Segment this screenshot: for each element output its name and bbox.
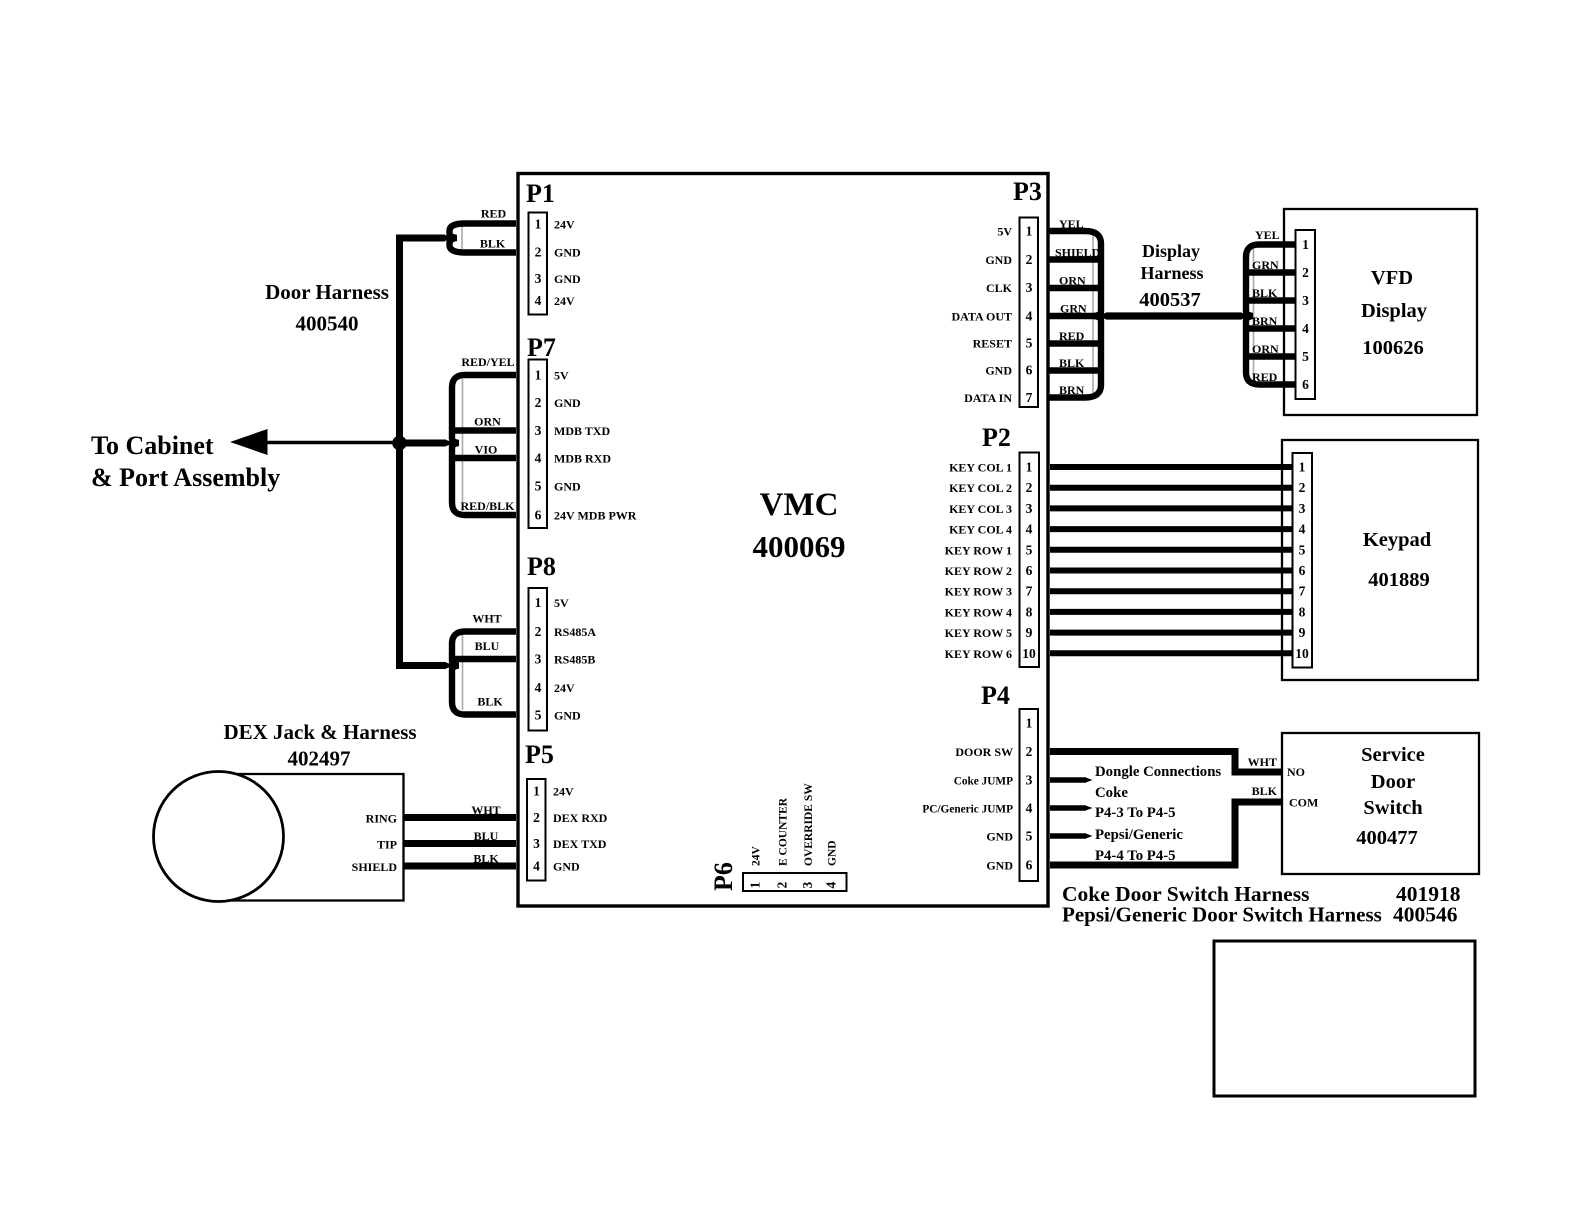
- svg-text:P4-3 To P4-5: P4-3 To P4-5: [1095, 805, 1176, 821]
- svg-text:GND: GND: [554, 396, 581, 410]
- svg-text:1: 1: [1299, 460, 1306, 475]
- svg-text:5V: 5V: [997, 225, 1012, 239]
- Service Door Switch box: [1282, 733, 1479, 874]
- svg-text:PC/Generic JUMP: PC/Generic JUMP: [922, 804, 1013, 816]
- svg-text:4: 4: [1026, 801, 1033, 816]
- svg-text:5: 5: [535, 708, 542, 723]
- connector P8 body: [529, 588, 548, 731]
- svg-text:5: 5: [1026, 336, 1033, 351]
- connector P7 body: [529, 360, 548, 529]
- stub wire P4-5: [1050, 833, 1086, 839]
- svg-text:GRN: GRN: [1060, 302, 1087, 316]
- svg-text:Dongle Connections: Dongle Connections: [1095, 764, 1221, 780]
- wire tip into P7 plug: [445, 440, 456, 447]
- connector P5 pin numbers: [533, 784, 540, 874]
- svg-text:DOOR SW: DOOR SW: [955, 745, 1013, 759]
- P3 plug wire 4 GRN / trunk exit: [1049, 313, 1101, 319]
- keypad wires 1-10: [1050, 467, 1292, 653]
- svg-text:KEY ROW 2: KEY ROW 2: [945, 564, 1012, 578]
- svg-text:& Port Assembly: & Port Assembly: [91, 463, 280, 492]
- svg-text:400477: 400477: [1356, 827, 1418, 849]
- svg-text:OVERRIDE SW: OVERRIDE SW: [803, 783, 815, 866]
- connector P1 body: [529, 213, 548, 315]
- svg-text:10: 10: [1022, 646, 1036, 661]
- svg-text:3: 3: [1026, 501, 1033, 516]
- svg-text:GND: GND: [986, 830, 1013, 844]
- svg-text:24V: 24V: [751, 846, 763, 867]
- svg-text:BRN: BRN: [1059, 383, 1085, 397]
- svg-text:BLU: BLU: [474, 829, 499, 843]
- svg-text:24V: 24V: [554, 294, 575, 308]
- svg-text:RS485B: RS485B: [554, 653, 595, 667]
- svg-text:3: 3: [1026, 773, 1033, 788]
- connector P8 pin numbers: [535, 595, 542, 723]
- wire display harness trunk: [1106, 312, 1242, 319]
- connector P4 pin labels: [922, 745, 1013, 873]
- svg-text:P4: P4: [981, 681, 1010, 710]
- svg-text:TIP: TIP: [377, 838, 397, 852]
- Keypad connector pin numbers: [1295, 460, 1309, 662]
- svg-text:5: 5: [1302, 349, 1309, 364]
- svg-text:YEL: YEL: [1059, 217, 1084, 231]
- svg-text:Harness: Harness: [1141, 263, 1204, 283]
- connector P3 body: [1020, 218, 1039, 408]
- svg-text:400546: 400546: [1393, 903, 1458, 927]
- svg-text:P4-4 To P4-5: P4-4 To P4-5: [1095, 848, 1176, 864]
- svg-text:Display: Display: [1361, 300, 1428, 322]
- svg-text:YEL: YEL: [1255, 228, 1280, 242]
- svg-text:GND: GND: [554, 246, 581, 260]
- svg-text:GND: GND: [554, 709, 581, 723]
- svg-text:1: 1: [535, 368, 542, 383]
- P8 plug shell: [452, 632, 516, 715]
- svg-text:400540: 400540: [296, 312, 359, 336]
- svg-text:E COUNTER: E COUNTER: [778, 797, 790, 866]
- svg-text:2: 2: [533, 810, 540, 825]
- VFD plug divider line: [1253, 249, 1255, 381]
- svg-text:DEX RXD: DEX RXD: [553, 811, 608, 825]
- svg-text:KEY ROW 5: KEY ROW 5: [945, 626, 1012, 640]
- VFD connector body: [1296, 230, 1316, 399]
- svg-text:KEY COL 4: KEY COL 4: [949, 523, 1012, 537]
- svg-text:KEY ROW 1: KEY ROW 1: [945, 544, 1012, 558]
- P7 plug wire ORN: [452, 427, 516, 433]
- svg-text:5V: 5V: [554, 596, 569, 610]
- svg-text:RED: RED: [1059, 329, 1085, 343]
- svg-text:BRN: BRN: [1252, 314, 1278, 328]
- svg-text:P6: P6: [709, 862, 738, 891]
- VFD plug shell: [1246, 245, 1295, 385]
- svg-text:GND: GND: [986, 859, 1013, 873]
- svg-text:4: 4: [533, 859, 540, 874]
- svg-text:GND: GND: [985, 253, 1012, 267]
- connector P2 pin numbers: [1022, 460, 1036, 662]
- connector P5 pin labels: [553, 785, 608, 874]
- svg-text:RED: RED: [1252, 370, 1278, 384]
- svg-text:GND: GND: [827, 840, 839, 866]
- svg-text:4: 4: [1299, 522, 1306, 537]
- svg-text:2: 2: [775, 882, 790, 889]
- svg-text:5: 5: [1026, 543, 1033, 558]
- svg-text:2: 2: [535, 395, 542, 410]
- wire tip into VFD plug: [1241, 313, 1251, 320]
- svg-text:1: 1: [535, 595, 542, 610]
- svg-text:DATA OUT: DATA OUT: [951, 310, 1012, 324]
- svg-text:BLK: BLK: [1252, 286, 1278, 300]
- svg-text:5V: 5V: [554, 369, 569, 383]
- svg-text:RED/BLK: RED/BLK: [460, 499, 515, 513]
- svg-text:P7: P7: [527, 333, 556, 362]
- wire tip into P3 plug: [1097, 313, 1107, 320]
- stub wire P4-4: [1050, 805, 1086, 811]
- arrowhead to cabinet: [230, 429, 268, 455]
- wire thin line to cabinet arrow: [261, 441, 400, 444]
- svg-text:VFD: VFD: [1371, 267, 1413, 289]
- svg-text:2: 2: [535, 624, 542, 639]
- svg-text:3: 3: [533, 836, 540, 851]
- svg-text:P3: P3: [1013, 177, 1042, 206]
- connector P6 pin labels (rotated): [751, 783, 839, 866]
- svg-text:CLK: CLK: [986, 281, 1013, 295]
- svg-text:Pepsi/Generic: Pepsi/Generic: [1095, 827, 1183, 843]
- empty note box: [1214, 941, 1475, 1096]
- svg-text:BLU: BLU: [475, 639, 500, 653]
- svg-text:4: 4: [535, 680, 542, 695]
- svg-text:Keypad: Keypad: [1363, 529, 1432, 551]
- svg-text:8: 8: [1026, 605, 1033, 620]
- svg-text:7: 7: [1299, 584, 1306, 599]
- svg-text:24V: 24V: [554, 681, 575, 695]
- svg-text:KEY ROW 4: KEY ROW 4: [945, 606, 1012, 620]
- svg-text:WHT: WHT: [1248, 755, 1277, 769]
- svg-text:4: 4: [1302, 321, 1309, 336]
- svg-text:402497: 402497: [288, 747, 351, 771]
- svg-text:4: 4: [1026, 309, 1033, 324]
- svg-text:5: 5: [1299, 543, 1306, 558]
- svg-text:P8: P8: [527, 552, 556, 581]
- svg-text:P1: P1: [526, 179, 555, 208]
- svg-text:NO: NO: [1287, 765, 1305, 779]
- svg-text:10: 10: [1295, 646, 1309, 661]
- svg-text:RED/YEL: RED/YEL: [461, 355, 514, 369]
- wire DEX WHT: [404, 814, 517, 821]
- Keypad connector body: [1293, 453, 1313, 668]
- svg-text:1: 1: [1026, 460, 1033, 475]
- connector P2 pin labels: [945, 461, 1012, 662]
- svg-text:SHIELD: SHIELD: [1055, 246, 1101, 260]
- connector P5 body: [527, 779, 546, 881]
- svg-text:P2: P2: [982, 423, 1011, 452]
- P3 plug wire 5 RED: [1049, 340, 1101, 346]
- stub wire P4-3: [1050, 777, 1086, 783]
- svg-text:RESET: RESET: [973, 337, 1012, 351]
- svg-text:WHT: WHT: [471, 803, 500, 817]
- svg-text:1: 1: [1026, 716, 1033, 731]
- connector P7 pin labels: [554, 369, 637, 523]
- connector P7 pin numbers: [535, 368, 542, 523]
- svg-text:ORN: ORN: [474, 415, 501, 429]
- svg-text:Coke: Coke: [1095, 785, 1128, 801]
- P8 plug divider line: [462, 635, 464, 710]
- svg-text:3: 3: [535, 271, 542, 286]
- connector P3 pin numbers: [1026, 224, 1033, 406]
- wire DOOR SW to NO: [1050, 752, 1282, 773]
- svg-text:ORN: ORN: [1059, 274, 1086, 288]
- svg-text:6: 6: [535, 508, 542, 523]
- svg-text:KEY COL 2: KEY COL 2: [949, 481, 1012, 495]
- svg-text:1: 1: [535, 217, 542, 232]
- VFD plug wire GRN: [1246, 269, 1295, 275]
- P3 plug wire 6 BLK: [1049, 367, 1101, 373]
- svg-text:1: 1: [533, 784, 540, 799]
- wire DEX BLU: [404, 840, 517, 847]
- svg-text:2: 2: [535, 245, 542, 260]
- svg-text:2: 2: [1026, 744, 1033, 759]
- svg-text:7: 7: [1026, 584, 1033, 599]
- svg-text:GND: GND: [554, 272, 581, 286]
- svg-text:8: 8: [1299, 605, 1306, 620]
- svg-text:Switch: Switch: [1363, 797, 1423, 819]
- svg-text:1: 1: [1302, 237, 1309, 252]
- P1 plug shell: [450, 224, 517, 253]
- svg-text:BLK: BLK: [1059, 356, 1085, 370]
- P1 plug divider line: [461, 227, 463, 249]
- VFD Display box: [1284, 209, 1477, 415]
- svg-text:401889: 401889: [1368, 569, 1430, 591]
- connector P1 pin numbers: [535, 217, 542, 309]
- svg-text:GND: GND: [553, 860, 580, 874]
- svg-text:KEY COL 3: KEY COL 3: [949, 502, 1012, 516]
- svg-text:3: 3: [1026, 280, 1033, 295]
- svg-text:6: 6: [1302, 377, 1309, 392]
- svg-text:RS485A: RS485A: [554, 625, 596, 639]
- svg-text:9: 9: [1299, 625, 1306, 640]
- svg-text:Service: Service: [1361, 744, 1425, 766]
- svg-text:MDB RXD: MDB RXD: [554, 452, 611, 466]
- P7 plug shell: [452, 375, 516, 515]
- svg-text:SHIELD: SHIELD: [352, 860, 398, 874]
- svg-text:2: 2: [1026, 480, 1033, 495]
- svg-text:5: 5: [535, 479, 542, 494]
- P3 harness plug shell: [1049, 231, 1101, 398]
- svg-text:Pepsi/Generic Door Switch Harn: Pepsi/Generic Door Switch Harness: [1062, 903, 1382, 927]
- connector P8 pin labels: [554, 596, 596, 723]
- svg-text:3: 3: [535, 652, 542, 667]
- svg-text:Display: Display: [1142, 241, 1200, 261]
- svg-text:DEX Jack & Harness: DEX Jack & Harness: [223, 720, 416, 744]
- svg-text:COM: COM: [1289, 796, 1318, 810]
- VFD connector pin numbers: [1302, 237, 1309, 392]
- svg-text:Door: Door: [1371, 771, 1415, 793]
- wire DEX BLK: [404, 863, 517, 870]
- node junction dot: [392, 436, 407, 451]
- svg-text:1: 1: [748, 882, 763, 889]
- svg-text:DEX TXD: DEX TXD: [553, 837, 607, 851]
- svg-text:BLK: BLK: [1252, 784, 1278, 798]
- svg-text:3: 3: [800, 882, 815, 889]
- wire tip into P8 plug: [445, 662, 456, 669]
- Keypad box: [1282, 440, 1478, 680]
- svg-text:BLK: BLK: [477, 695, 503, 709]
- VFD plug wire BLK: [1246, 297, 1295, 303]
- connector P2 body: [1020, 453, 1040, 668]
- svg-text:1: 1: [1026, 224, 1033, 239]
- svg-text:MDB TXD: MDB TXD: [554, 424, 610, 438]
- P3 plug wire 2 SHIELD: [1049, 256, 1101, 262]
- svg-text:VMC: VMC: [760, 487, 839, 523]
- wire labels VFD side: [1252, 228, 1280, 384]
- svg-text:3: 3: [535, 423, 542, 438]
- DEX Jack body box: [217, 774, 404, 901]
- svg-text:DATA IN: DATA IN: [964, 391, 1012, 405]
- svg-text:BLK: BLK: [480, 237, 506, 251]
- svg-text:24V MDB PWR: 24V MDB PWR: [554, 509, 637, 523]
- svg-text:GND: GND: [985, 364, 1012, 378]
- P7 plug divider line: [462, 379, 464, 511]
- svg-text:KEY ROW 6: KEY ROW 6: [945, 647, 1012, 661]
- wire stub junction to P7: [400, 440, 447, 447]
- wire labels P3 side: [1055, 217, 1101, 397]
- svg-text:9: 9: [1026, 625, 1033, 640]
- svg-text:400069: 400069: [753, 529, 846, 564]
- DEX Jack circle: [154, 772, 284, 902]
- svg-text:4: 4: [1026, 522, 1033, 537]
- svg-text:5: 5: [1026, 829, 1033, 844]
- svg-text:2: 2: [1026, 252, 1033, 267]
- connector P3 pin labels: [951, 225, 1012, 406]
- connector P6 body: [743, 873, 847, 891]
- svg-text:KEY ROW 3: KEY ROW 3: [945, 585, 1012, 599]
- svg-text:4: 4: [824, 882, 839, 889]
- svg-text:7: 7: [1026, 390, 1033, 405]
- svg-text:100626: 100626: [1362, 337, 1424, 359]
- VMC main box U1: [518, 174, 1048, 907]
- svg-text:RING: RING: [366, 812, 397, 826]
- svg-text:4: 4: [535, 451, 542, 466]
- wire GND to COM: [1050, 802, 1282, 865]
- svg-text:3: 3: [1302, 293, 1309, 308]
- svg-text:Coke JUMP: Coke JUMP: [954, 776, 1013, 788]
- svg-text:WHT: WHT: [472, 612, 501, 626]
- connector P1 pin labels: [554, 218, 581, 309]
- VFD plug wire ORN: [1246, 353, 1295, 359]
- svg-text:2: 2: [1302, 265, 1309, 280]
- svg-text:3: 3: [1299, 501, 1306, 516]
- svg-text:Door Harness: Door Harness: [265, 280, 389, 304]
- VFD plug wire BRN: [1246, 325, 1295, 331]
- svg-text:400537: 400537: [1139, 289, 1201, 311]
- P3 plug divider line: [1092, 235, 1094, 394]
- svg-text:24V: 24V: [553, 785, 574, 799]
- svg-text:ORN: ORN: [1252, 342, 1279, 356]
- svg-text:6: 6: [1026, 563, 1033, 578]
- wire trunk (door harness): [400, 238, 447, 666]
- svg-text:KEY COL 1: KEY COL 1: [949, 461, 1012, 475]
- svg-text:GRN: GRN: [1252, 258, 1279, 272]
- svg-text:6: 6: [1026, 858, 1033, 873]
- svg-text:24V: 24V: [554, 218, 575, 232]
- svg-text:BLK: BLK: [473, 852, 499, 866]
- svg-text:RED: RED: [481, 207, 507, 221]
- connector P4 pin numbers: [1026, 716, 1033, 873]
- svg-text:P5: P5: [525, 740, 554, 769]
- svg-text:6: 6: [1299, 563, 1306, 578]
- svg-text:GND: GND: [554, 480, 581, 494]
- P3 plug wire 3 ORN: [1049, 285, 1101, 291]
- svg-text:VIO: VIO: [475, 443, 498, 457]
- connector P4 body: [1020, 709, 1039, 881]
- P7 plug wire VIO: [452, 455, 516, 461]
- svg-text:2: 2: [1299, 480, 1306, 495]
- P8 plug wire BLU: [452, 656, 516, 662]
- connector P6 pin numbers (rotated): [748, 882, 839, 889]
- wire tip into P1 plug: [444, 235, 454, 242]
- svg-text:To Cabinet: To Cabinet: [91, 431, 214, 460]
- svg-text:4: 4: [535, 293, 542, 308]
- svg-text:6: 6: [1026, 363, 1033, 378]
- Dongle Connections text block: [1095, 764, 1221, 864]
